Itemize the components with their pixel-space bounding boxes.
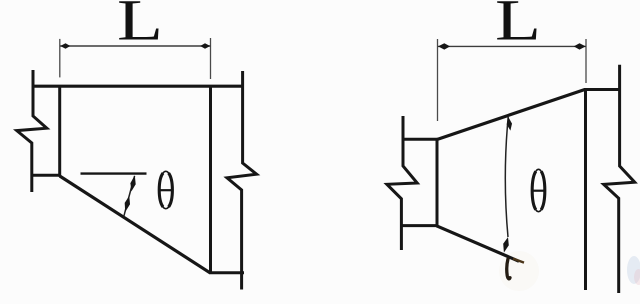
right figure: bottom-left short horizontal shelf <box>402 224 439 227</box>
left figure: short left horizontal shelf <box>31 174 61 177</box>
watermark: brown tint on slant end <box>513 259 524 263</box>
right figure: theta symbol <box>532 169 546 211</box>
left figure: theta symbol <box>159 171 173 208</box>
left figure: dimension arrowhead left <box>60 43 70 48</box>
right figure: dimension arrowhead right <box>574 43 586 49</box>
right figure: top-left short horizontal shelf <box>402 138 439 141</box>
right figure: top taper slant line <box>437 90 585 140</box>
left figure: bottom short horizontal shelf <box>209 271 244 274</box>
left figure: outer left wall line with break <box>17 70 47 192</box>
right figure: top-right short horizontal connector <box>584 88 621 91</box>
watermark: faint pale blob <box>499 251 539 291</box>
left figure: dimension line L <box>60 45 211 47</box>
right figure: angle arrowhead top <box>507 117 512 131</box>
watermark: faint blue smudge right edge <box>627 256 640 284</box>
left figure: outer right wall line with break <box>227 71 257 290</box>
right figure: inner left vertical edge <box>436 138 439 227</box>
left figure: dimension extension line right <box>210 38 212 79</box>
left figure: angle arrowhead top <box>130 175 135 191</box>
right figure: bottom taper slant line <box>437 226 520 261</box>
left figure: taper slant line <box>60 176 210 273</box>
left figure: angle arrow arc <box>124 176 135 217</box>
svg-text:L: L <box>495 0 541 52</box>
left figure: dimension extension line left <box>59 39 61 78</box>
left figure: horizontal angle reference line <box>81 172 147 174</box>
svg-text:L: L <box>117 0 163 52</box>
watermark: dark squiggle <box>507 259 510 279</box>
right figure: angle arrow arc <box>505 117 508 237</box>
left figure: angle arrowhead bottom <box>125 196 130 212</box>
left figure: inner left vertical edge <box>58 86 61 177</box>
left figure: top edge line <box>32 85 245 88</box>
right figure: dimension extension line right <box>585 39 587 83</box>
right figure: inner right vertical edge <box>584 89 587 290</box>
right figure: dimension line L <box>438 45 586 47</box>
right figure: dimension extension line left <box>437 39 439 121</box>
right figure: dimension arrowhead left <box>438 43 450 49</box>
right figure: angle arrowhead bottom <box>503 237 509 253</box>
right figure: outer left wall line with break <box>387 116 417 250</box>
left figure: inner right vertical edge <box>209 86 212 273</box>
left figure: dimension arrowhead right <box>200 43 210 48</box>
right figure: outer right wall line with break <box>604 65 635 293</box>
watermark: faint pink smudge right edge <box>634 269 640 285</box>
